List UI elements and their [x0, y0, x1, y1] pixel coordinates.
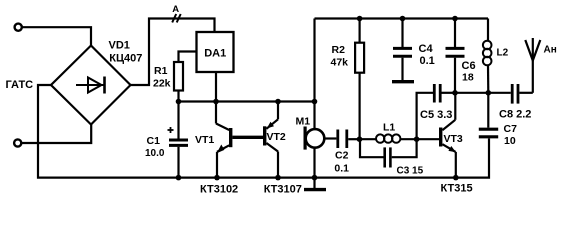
node dot VT3 emitter on ground rail	[453, 175, 459, 181]
transistor VT3	[439, 93, 456, 178]
node dot C2/R2/L1	[357, 136, 363, 142]
svg-text:КТ315: КТ315	[441, 182, 473, 194]
node dot bus/DA1/VT1	[213, 99, 219, 105]
svg-text:C4: C4	[419, 43, 434, 55]
svg-text:R1: R1	[154, 65, 168, 77]
bridge rectifier VD1 diamond	[51, 46, 131, 125]
capacitor C4	[393, 19, 412, 81]
svg-text:L2: L2	[497, 48, 509, 59]
wire bridge right vertex up to top wire into DA1	[131, 19, 215, 86]
microphone M1 riser from bus	[313, 102, 315, 130]
svg-text:КЦ407: КЦ407	[109, 52, 142, 64]
resistor R2	[355, 19, 364, 140]
diode inside VD1	[76, 77, 105, 94]
op-amp/regulator DA1	[197, 32, 234, 72]
node dot R2 top	[357, 16, 363, 22]
wire bridge left vertex to ground bottom rail	[38, 85, 489, 178]
wire DA1 left pin to R1	[179, 52, 197, 63]
svg-text:47k: 47k	[331, 56, 349, 68]
svg-text:C8 2.2: C8 2.2	[499, 109, 531, 121]
capacitor C8	[512, 84, 533, 104]
node dot C4 top	[400, 16, 406, 22]
wire top supply rail	[315, 17, 489, 19]
transistor VT2	[263, 102, 278, 178]
node dot L1/VT3 base/C5	[414, 136, 420, 142]
svg-text:10.0: 10.0	[145, 148, 165, 159]
terminal X1 top-left	[15, 24, 22, 31]
ground symbol below C4	[392, 80, 414, 83]
node dot C6 top	[452, 16, 458, 22]
resistor R1	[174, 62, 183, 91]
svg-text:M1: M1	[296, 115, 311, 127]
node dot C5/C6/VT3 collector	[452, 90, 458, 96]
node dot C1 on ground rail	[176, 175, 182, 181]
svg-text:КТ3107: КТ3107	[264, 184, 302, 196]
capacitor C7	[479, 93, 498, 137]
capacitor C5	[434, 84, 455, 103]
wire R1 bottom to bus	[177, 91, 179, 102]
svg-text:0.1: 0.1	[334, 163, 349, 175]
svg-text:C3 15: C3 15	[397, 166, 424, 177]
svg-text:C2: C2	[335, 150, 349, 162]
wire base link VT1-VT2	[232, 136, 263, 139]
svg-text:КТ3102: КТ3102	[200, 184, 238, 196]
break mark A on wire	[172, 14, 181, 22]
node dot M1 on ground rail	[312, 175, 318, 181]
svg-text:C5 3.3: C5 3.3	[420, 109, 452, 121]
svg-text:R2: R2	[332, 44, 346, 56]
wire C5 riser from base node	[417, 93, 433, 139]
svg-text:А: А	[172, 4, 179, 15]
inductor L1	[360, 134, 440, 142]
node dot bus/VT2	[275, 99, 281, 105]
capacitor C6	[446, 19, 465, 93]
svg-text:DA1: DA1	[204, 47, 226, 59]
wire terminal X1 to bridge top vertex	[22, 27, 91, 45]
transistor VT1	[216, 102, 232, 178]
svg-text:C6: C6	[462, 60, 476, 72]
inductor L2	[483, 19, 492, 93]
svg-text:18: 18	[462, 71, 474, 83]
capacitor C2	[338, 130, 360, 149]
svg-text:0.1: 0.1	[420, 55, 435, 67]
wire DA1 bottom pin to bus	[215, 72, 217, 102]
wire terminal X2 to bridge bottom vertex	[22, 125, 92, 144]
capacitor C1	[169, 102, 188, 178]
svg-text:VD1: VD1	[109, 39, 130, 51]
node dot bus/M1 riser	[312, 99, 318, 105]
microphone M1	[305, 127, 336, 178]
svg-text:ГАТС: ГАТС	[6, 79, 34, 91]
wire supply bus rail	[179, 100, 315, 102]
node dot VT1 emitter on ground rail	[214, 175, 220, 181]
svg-text:22k: 22k	[153, 78, 171, 90]
node dot bus/R1/C1	[176, 99, 182, 105]
terminal X2 bottom-left	[14, 139, 21, 146]
svg-text:C7: C7	[504, 123, 518, 135]
svg-text:10: 10	[504, 135, 516, 147]
wire riser bus to top rail	[313, 19, 315, 102]
svg-text:VT1: VT1	[195, 134, 214, 146]
plus mark of C1	[168, 127, 174, 133]
ground symbol below M1	[304, 178, 326, 190]
node dot VT2 on ground rail	[275, 175, 281, 181]
antenna WA1	[525, 38, 540, 93]
svg-text:C1: C1	[147, 135, 161, 147]
svg-text:L1: L1	[383, 122, 395, 134]
wire collector line to C8	[455, 92, 511, 94]
capacitor C3 parallel branch	[360, 139, 417, 167]
svg-text:VT3: VT3	[444, 133, 463, 145]
svg-text:Ан: Ан	[544, 45, 557, 56]
svg-text:VT2: VT2	[267, 131, 286, 143]
node dot L2/C7	[486, 90, 492, 96]
